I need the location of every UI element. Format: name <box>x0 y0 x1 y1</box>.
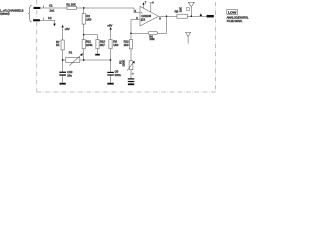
svg-text:1K: 1K <box>56 43 60 47</box>
svg-text:+9V: +9V <box>107 24 112 28</box>
svg-text:PULSE SIGNAL: PULSE SIGNAL <box>227 19 243 23</box>
svg-text:LOW: LOW <box>228 10 236 14</box>
pin tick input 2 <box>43 18 45 21</box>
resistor R10 <box>96 40 99 49</box>
node dot B <box>83 34 85 36</box>
svg-text:R1 10K: R1 10K <box>66 3 75 7</box>
capacitor C10 <box>62 60 64 72</box>
enclosure dashed right edge <box>215 2 217 92</box>
node dot D <box>83 59 85 61</box>
brace <box>28 5 32 22</box>
svg-text:7: 7 <box>145 0 147 4</box>
ground under C10 <box>60 83 66 85</box>
svg-text:P1: P1 <box>69 51 73 55</box>
svg-text:IC1: IC1 <box>141 18 146 22</box>
svg-text:100n: 100n <box>115 73 122 77</box>
enclosure dashed left edge <box>36 0 38 92</box>
supply arrow above R7 <box>61 25 63 28</box>
ground under C5 <box>107 83 113 85</box>
op-amp pin 7 stub <box>143 3 145 8</box>
svg-text:10u: 10u <box>67 73 72 77</box>
supply arrow above R8 <box>109 27 111 30</box>
svg-text:1K0: 1K0 <box>124 43 129 47</box>
svg-text:3K7: 3K7 <box>100 43 105 47</box>
resistor R2 <box>83 8 85 14</box>
svg-text:100K: 100K <box>86 43 93 47</box>
trimmer P2 <box>129 61 133 70</box>
capacitor C11 polarized <box>130 70 132 79</box>
arrowhead down input 2 <box>53 24 56 27</box>
op-amp pin 4 stub <box>150 3 152 12</box>
svg-text:+9V: +9V <box>65 27 70 31</box>
op-amp IC1 triangle <box>140 6 159 26</box>
svg-text:1K0: 1K0 <box>113 43 118 47</box>
output wire <box>159 15 207 17</box>
svg-text:4: 4 <box>152 0 154 4</box>
svg-text:10K: 10K <box>179 7 183 12</box>
wire W1 <box>40 7 134 9</box>
svg-text:10M: 10M <box>149 37 154 41</box>
resistor R4 rounded <box>148 31 157 34</box>
wire W2 <box>40 20 55 24</box>
resistor R12 <box>129 40 132 49</box>
connector bar input 1 <box>34 7 41 9</box>
probe symbol <box>188 2 195 16</box>
svg-text:C1: C1 <box>49 4 53 8</box>
enclosure dashed bottom edge <box>37 91 216 93</box>
node dot C <box>62 59 64 61</box>
svg-text:-: - <box>141 11 142 15</box>
potentiometer P1 <box>66 57 80 62</box>
resistor R11 <box>83 35 85 40</box>
wire jog to pin 2 <box>134 8 140 13</box>
node dot E <box>110 59 112 61</box>
capacitor C5 <box>110 60 112 72</box>
node dot A <box>83 7 85 9</box>
ground under C11 <box>128 83 134 85</box>
feedback vertical wire <box>166 16 168 33</box>
connector bar output <box>207 15 214 18</box>
probe box <box>186 8 189 11</box>
svg-text:(mixed): (mixed) <box>0 11 9 15</box>
svg-text:100K: 100K <box>122 60 126 67</box>
wire pin 3 <box>131 19 140 21</box>
resistor R8 <box>109 40 112 49</box>
bottom wire <box>63 59 111 61</box>
svg-text:C2: C2 <box>48 16 52 20</box>
feedback horizontal wire <box>131 32 167 34</box>
svg-text:1K0: 1K0 <box>86 18 91 22</box>
pin tick input 1 <box>42 5 44 8</box>
resistor R1 <box>67 6 76 9</box>
output label box <box>227 9 238 14</box>
tip marker arrow <box>200 13 203 16</box>
probe symbol 2 <box>185 32 191 43</box>
connector bar input 2 <box>33 19 40 21</box>
ground under R10 <box>97 49 99 54</box>
node dot G <box>166 15 168 17</box>
pin 3 column <box>130 20 132 40</box>
svg-text:2n2: 2n2 <box>50 9 55 13</box>
node dot H <box>190 15 192 17</box>
resistor R7 <box>61 40 64 50</box>
node dot F <box>130 32 132 34</box>
resistor R5 <box>177 14 188 18</box>
svg-text:6: 6 <box>159 17 161 21</box>
wire node B to R10 <box>84 35 98 40</box>
capacitor C11 plus mark <box>132 73 134 75</box>
